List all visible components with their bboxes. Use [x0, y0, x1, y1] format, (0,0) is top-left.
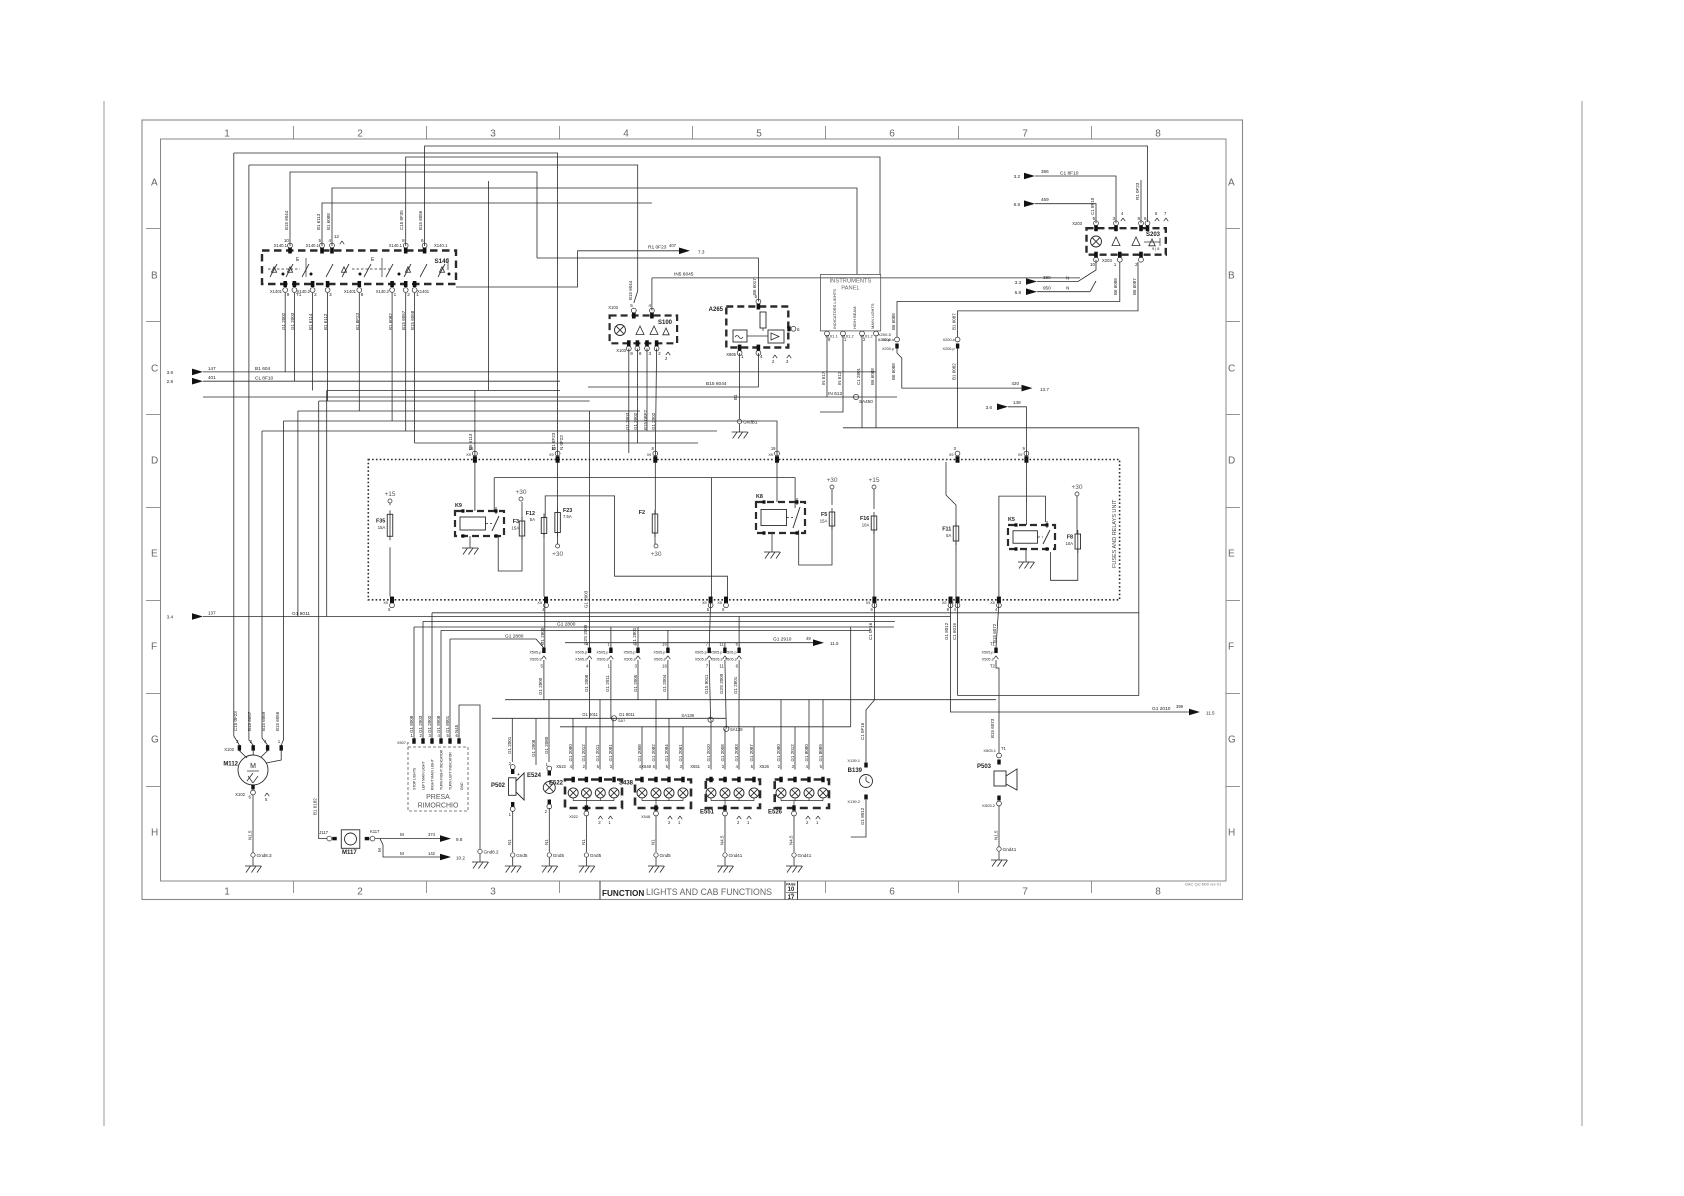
- svg-text:G: G: [151, 735, 159, 746]
- svg-text:19: 19: [771, 446, 776, 451]
- svg-text:G15 8011: G15 8011: [704, 674, 709, 694]
- svg-text:+30: +30: [650, 551, 661, 558]
- svg-text:1: 1: [1114, 262, 1117, 267]
- svg-text:SA?: SA?: [618, 719, 625, 723]
- svg-text:10.2: 10.2: [456, 856, 465, 861]
- svg-text:B6 6087: B6 6087: [1132, 278, 1137, 295]
- svg-text:C15 8F35: C15 8F35: [399, 210, 404, 230]
- svg-text:N1: N1: [507, 839, 512, 845]
- svg-text:G1 8080: G1 8080: [804, 744, 809, 762]
- svg-text:X522: X522: [569, 815, 578, 819]
- svg-text:S203: S203: [1146, 232, 1161, 238]
- svg-text:Gnd41: Gnd41: [729, 853, 743, 858]
- svg-text:X505.s: X505.s: [982, 657, 994, 661]
- svg-text:X507.p: X507.p: [397, 741, 409, 745]
- svg-text:2: 2: [357, 129, 363, 140]
- svg-text:+15: +15: [384, 491, 395, 498]
- svg-text:IN5 6045: IN5 6045: [674, 272, 694, 278]
- svg-text:Gnd41: Gnd41: [798, 853, 812, 858]
- svg-text:INSTRUMENTS: INSTRUMENTS: [830, 279, 872, 285]
- svg-text:+: +: [517, 772, 520, 778]
- svg-text:148: 148: [1013, 400, 1021, 405]
- svg-text:X548: X548: [641, 815, 650, 819]
- svg-text:8: 8: [402, 238, 405, 243]
- svg-text:N4.5: N4.5: [789, 835, 794, 845]
- svg-text:G1 8008: G1 8008: [409, 715, 414, 733]
- svg-text:X203: X203: [1102, 258, 1112, 263]
- svg-text:G1 2087: G1 2087: [749, 744, 754, 762]
- svg-text:Gnd8.3: Gnd8.3: [257, 853, 273, 858]
- svg-text:C: C: [151, 364, 158, 375]
- svg-text:IN 617: IN 617: [821, 371, 826, 385]
- svg-text:K117: K117: [370, 829, 380, 834]
- svg-text:B1 6088: B1 6088: [326, 213, 331, 230]
- svg-text:K503.2: K503.2: [982, 803, 995, 808]
- svg-text:X505.p: X505.p: [575, 650, 587, 654]
- svg-text:X505.p: X505.p: [596, 650, 608, 654]
- svg-text:D: D: [1228, 456, 1235, 467]
- svg-text:E524: E524: [527, 773, 542, 779]
- svg-text:K5: K5: [1008, 517, 1015, 523]
- svg-text:HIGH BEAM: HIGH BEAM: [852, 307, 857, 329]
- svg-text:4: 4: [760, 354, 763, 359]
- svg-text:G1 2080: G1 2080: [544, 736, 549, 754]
- svg-text:G1 2082: G1 2082: [651, 744, 656, 762]
- svg-text:8: 8: [361, 292, 364, 297]
- svg-text:X5: X5: [990, 601, 995, 605]
- svg-text:3: 3: [490, 887, 496, 898]
- svg-text:G1 8011: G1 8011: [619, 712, 635, 717]
- svg-text:X9: X9: [549, 453, 554, 457]
- svg-text:G1 2002: G1 2002: [633, 412, 638, 430]
- svg-text:5: 5: [630, 303, 633, 308]
- svg-text:X200-s: X200-s: [943, 338, 955, 342]
- svg-text:C1 0F16: C1 0F16: [868, 622, 873, 640]
- svg-text:B15 6072: B15 6072: [992, 623, 997, 643]
- svg-text:4: 4: [623, 129, 629, 140]
- svg-text:CL 8F10: CL 8F10: [255, 376, 274, 382]
- svg-text:X505.s: X505.s: [624, 657, 636, 661]
- svg-text:G: G: [1228, 735, 1236, 746]
- svg-text:B6 6017: B6 6017: [752, 278, 757, 295]
- svg-text:X505.s: X505.s: [575, 657, 587, 661]
- svg-text:IN 612: IN 612: [837, 371, 842, 385]
- svg-text:X505.p: X505.p: [981, 650, 993, 654]
- svg-text:401: 401: [208, 375, 216, 380]
- svg-text:6: 6: [889, 887, 895, 898]
- svg-text:C1 2801: C1 2801: [856, 367, 861, 385]
- svg-text:Gnd5: Gnd5: [553, 853, 565, 858]
- svg-text:X5: X5: [383, 601, 388, 605]
- svg-text:X505.p: X505.p: [623, 650, 635, 654]
- svg-text:X200.p: X200.p: [882, 347, 894, 351]
- svg-text:T1: T1: [1001, 746, 1007, 751]
- svg-text:15A: 15A: [820, 519, 828, 524]
- svg-text:11: 11: [719, 663, 724, 668]
- svg-text:B15 6044: B15 6044: [706, 381, 727, 387]
- svg-text:N1.5: N1.5: [248, 830, 253, 840]
- svg-text:147: 147: [208, 366, 216, 371]
- svg-text:N1: N1: [581, 839, 586, 845]
- svg-text:X140.2: X140.2: [297, 289, 311, 294]
- svg-text:PAGE: PAGE: [786, 883, 796, 887]
- svg-text:2.8: 2.8: [167, 379, 174, 384]
- svg-text:+30: +30: [515, 489, 526, 496]
- svg-text:STOP LIGHTS: STOP LIGHTS: [412, 767, 416, 790]
- svg-text:9: 9: [287, 292, 290, 297]
- svg-text:3: 3: [649, 351, 652, 356]
- svg-text:3.6: 3.6: [167, 370, 174, 375]
- svg-text:+30: +30: [826, 477, 837, 484]
- svg-text:X102: X102: [235, 792, 245, 797]
- svg-text:399: 399: [1176, 704, 1184, 709]
- svg-text:B15 6044: B15 6044: [628, 280, 633, 300]
- svg-text:2: 2: [407, 292, 410, 297]
- svg-text:15A: 15A: [512, 526, 520, 531]
- svg-text:3: 3: [490, 129, 496, 140]
- svg-text:LIGHTS AND CAB FUNCTIONS: LIGHTS AND CAB FUNCTIONS: [646, 887, 772, 898]
- svg-text:6: 6: [421, 238, 424, 243]
- svg-text:GND: GND: [460, 782, 464, 790]
- svg-text:9: 9: [1092, 216, 1095, 221]
- svg-text:N45: N45: [454, 724, 459, 733]
- svg-text:Gnd5: Gnd5: [516, 853, 528, 858]
- svg-text:8: 8: [1155, 129, 1161, 140]
- svg-text:G1 2801: G1 2801: [632, 627, 637, 645]
- svg-text:R1 0F23: R1 0F23: [1135, 182, 1140, 200]
- svg-text:16: 16: [662, 663, 667, 668]
- svg-text:G1 2004: G1 2004: [662, 674, 667, 692]
- svg-text:S100: S100: [658, 320, 673, 326]
- svg-text:8: 8: [1137, 216, 1140, 221]
- svg-text:B6 6088: B6 6088: [891, 363, 896, 380]
- svg-text:R1 0F23: R1 0F23: [648, 245, 667, 251]
- svg-text:B139: B139: [848, 768, 863, 774]
- svg-text:X505.s: X505.s: [695, 657, 707, 661]
- svg-text:137: 137: [208, 611, 216, 616]
- svg-text:X5: X5: [717, 601, 722, 605]
- svg-text:C1 8F10: C1 8F10: [1060, 171, 1079, 177]
- svg-text:J117: J117: [319, 830, 328, 835]
- svg-text:F11: F11: [942, 527, 951, 533]
- svg-text:X1401: X1401: [417, 289, 430, 294]
- svg-text:G1 2080: G1 2080: [776, 744, 781, 762]
- svg-text:B6 6088: B6 6088: [891, 313, 896, 330]
- svg-text:A: A: [1228, 178, 1235, 189]
- svg-text:X865: X865: [726, 352, 736, 357]
- svg-text:X203: X203: [1072, 221, 1082, 226]
- svg-text:3: 3: [329, 292, 332, 297]
- svg-text:6.8: 6.8: [1015, 290, 1022, 295]
- svg-text:E526: E526: [768, 810, 783, 816]
- svg-text:M117: M117: [342, 850, 357, 856]
- svg-text:C: C: [1228, 364, 1235, 375]
- svg-text:386: 386: [1041, 169, 1049, 174]
- svg-text:3.2: 3.2: [1014, 174, 1021, 179]
- svg-text:G1 2011: G1 2011: [595, 744, 600, 761]
- svg-text:B15 6044: B15 6044: [284, 210, 289, 230]
- svg-text:X1401: X1401: [270, 289, 283, 294]
- svg-text:G1 2910: G1 2910: [773, 637, 792, 643]
- svg-text:2: 2: [314, 292, 317, 297]
- svg-text:3.4: 3.4: [167, 615, 174, 620]
- svg-text:G1 2084: G1 2084: [664, 744, 669, 762]
- svg-text:FUNCTION: FUNCTION: [602, 889, 644, 898]
- svg-text:9 | 8: 9 | 8: [1152, 247, 1159, 251]
- svg-text:G2S 2009: G2S 2009: [719, 673, 724, 694]
- svg-text:Gnd41: Gnd41: [1003, 847, 1017, 852]
- svg-text:X5: X5: [866, 601, 871, 605]
- svg-text:X505.s: X505.s: [654, 657, 666, 661]
- svg-text:G1 2008: G1 2008: [531, 739, 536, 757]
- svg-text:B: B: [1228, 271, 1235, 282]
- svg-text:X1401: X1401: [344, 289, 357, 294]
- svg-text:G1 2003: G1 2003: [625, 412, 630, 430]
- svg-text:X526: X526: [759, 764, 769, 769]
- svg-text:X139.1: X139.1: [847, 758, 860, 763]
- svg-text:G1 2010: G1 2010: [1152, 706, 1171, 712]
- svg-text:Gnd8.2: Gnd8.2: [484, 850, 500, 855]
- svg-text:F5: F5: [821, 512, 827, 518]
- svg-text:G1 2012: G1 2012: [790, 744, 795, 762]
- svg-text:17: 17: [788, 895, 795, 901]
- svg-text:N1.5: N1.5: [994, 830, 999, 840]
- svg-text:F35: F35: [376, 518, 385, 524]
- svg-text:11: 11: [719, 641, 724, 646]
- svg-text:B15 6057: B15 6057: [401, 310, 406, 330]
- svg-text:Gnd5: Gnd5: [590, 853, 602, 858]
- svg-text:F16: F16: [860, 516, 869, 522]
- svg-text:MAIN LIGHTS: MAIN LIGHTS: [870, 303, 875, 329]
- svg-text:PANEL: PANEL: [841, 286, 860, 292]
- svg-text:+15: +15: [868, 477, 879, 484]
- svg-text:G1 2800: G1 2800: [540, 627, 545, 645]
- svg-text:G1 2001: G1 2001: [507, 736, 512, 754]
- svg-text:G1 2008: G1 2008: [637, 744, 642, 762]
- svg-text:C1 0F16: C1 0F16: [860, 722, 865, 740]
- svg-text:7.5A: 7.5A: [563, 514, 572, 519]
- svg-text:X548: X548: [641, 764, 651, 769]
- svg-text:3.6: 3.6: [986, 405, 993, 410]
- svg-text:SA450: SA450: [859, 399, 873, 404]
- svg-text:F: F: [151, 642, 157, 653]
- svg-text:G1 2080: G1 2080: [568, 744, 573, 762]
- svg-text:B1 6087: B1 6087: [952, 313, 957, 330]
- svg-text:5: 5: [756, 129, 762, 140]
- svg-text:X140.1: X140.1: [306, 243, 320, 248]
- svg-text:IN 612: IN 612: [828, 391, 842, 397]
- svg-text:6: 6: [1144, 216, 1147, 221]
- svg-text:G1 2012: G1 2012: [581, 744, 586, 762]
- svg-text:11.5: 11.5: [830, 641, 839, 646]
- svg-text:M: M: [250, 763, 256, 770]
- svg-text:F8: F8: [1067, 535, 1073, 541]
- svg-text:1: 1: [741, 354, 744, 359]
- svg-text:8: 8: [1155, 887, 1161, 898]
- svg-text:X103: X103: [616, 348, 626, 353]
- svg-text:X503.1: X503.1: [983, 748, 996, 753]
- svg-text:N1: N1: [651, 839, 656, 845]
- svg-text:G1 2002: G1 2002: [651, 412, 656, 430]
- svg-text:3.3: 3.3: [1015, 280, 1022, 285]
- svg-text:X5: X5: [949, 601, 954, 605]
- svg-text:K8: K8: [756, 494, 763, 500]
- svg-text:8: 8: [639, 351, 642, 356]
- svg-text:P502: P502: [491, 783, 506, 789]
- svg-text:X5: X5: [537, 601, 542, 605]
- svg-text:TURN RIGHT INDICATOR: TURN RIGHT INDICATOR: [439, 749, 443, 790]
- svg-text:X505.s: X505.s: [725, 657, 737, 661]
- svg-text:H: H: [1228, 828, 1235, 839]
- svg-text:B1 604: B1 604: [255, 366, 271, 372]
- svg-text:C1 6016: C1 6016: [952, 622, 957, 640]
- svg-text:B1 6113: B1 6113: [316, 213, 321, 230]
- svg-text:X5: X5: [702, 601, 707, 605]
- svg-text:6.8: 6.8: [1014, 202, 1021, 207]
- svg-text:M: M: [400, 851, 404, 856]
- svg-text:X505.s: X505.s: [530, 657, 542, 661]
- svg-text:9: 9: [630, 351, 633, 356]
- svg-text:H: H: [151, 828, 158, 839]
- svg-text:10A: 10A: [1066, 541, 1074, 546]
- svg-text:X9: X9: [466, 453, 471, 457]
- svg-text:M: M: [377, 848, 382, 852]
- svg-text:G1 2011: G1 2011: [605, 675, 610, 692]
- svg-text:B6 6088: B6 6088: [1113, 278, 1118, 295]
- svg-text:10A: 10A: [862, 523, 870, 528]
- svg-text:INDICATORS LIGHTS: INDICATORS LIGHTS: [832, 289, 837, 329]
- svg-text:2: 2: [357, 887, 363, 898]
- svg-text:6: 6: [797, 327, 800, 332]
- svg-text:X505.s: X505.s: [597, 657, 609, 661]
- svg-text:B15 6056: B15 6056: [275, 711, 280, 731]
- svg-text:G1 2003: G1 2003: [418, 715, 423, 733]
- svg-text:7: 7: [1022, 129, 1028, 140]
- svg-text:10: 10: [551, 446, 556, 451]
- svg-text:6: 6: [889, 129, 895, 140]
- svg-text:D: D: [151, 456, 158, 467]
- svg-text:B: B: [151, 271, 158, 282]
- svg-text:FUSES AND RELAYS UNIT: FUSES AND RELAYS UNIT: [1112, 499, 1118, 568]
- svg-text:X140.2: X140.2: [376, 289, 390, 294]
- svg-text:950: 950: [1043, 286, 1051, 291]
- svg-text:N4.5: N4.5: [720, 835, 725, 845]
- svg-text:B15 6073: B15 6073: [990, 718, 995, 738]
- svg-text:A265: A265: [709, 307, 724, 313]
- svg-text:G1 2061: G1 2061: [678, 744, 683, 762]
- svg-text:X140.1: X140.1: [274, 243, 288, 248]
- svg-text:7: 7: [1022, 887, 1028, 898]
- svg-text:13.7: 13.7: [1040, 387, 1049, 392]
- svg-text:G1 2880: G1 2880: [505, 634, 524, 640]
- svg-text:RIMORCHIO: RIMORCHIO: [418, 803, 459, 810]
- svg-text:K9: K9: [455, 503, 462, 509]
- svg-text:X9: X9: [949, 453, 954, 457]
- svg-text:G1 2003: G1 2003: [584, 590, 589, 608]
- svg-text:G1 2008: G1 2008: [720, 744, 725, 762]
- svg-text:3: 3: [1112, 216, 1115, 221]
- svg-text:X9: X9: [647, 453, 652, 457]
- svg-text:X200-s: X200-s: [882, 338, 894, 342]
- svg-text:G1 8001: G1 8001: [445, 715, 450, 733]
- svg-text:16: 16: [662, 641, 667, 646]
- svg-text:TURN LEFT INDICATOR: TURN LEFT INDICATOR: [448, 752, 452, 790]
- svg-text:X505.p: X505.p: [529, 650, 541, 654]
- svg-text:X200.p: X200.p: [943, 347, 955, 351]
- svg-text:X505.p: X505.p: [653, 650, 665, 654]
- svg-text:142: 142: [428, 851, 436, 856]
- svg-text:M112: M112: [223, 762, 238, 768]
- svg-text:G1 8012: G1 8012: [860, 807, 865, 825]
- svg-text:B6 6088: B6 6088: [870, 368, 875, 385]
- svg-text:+30: +30: [1071, 484, 1082, 491]
- svg-text:374: 374: [428, 832, 436, 837]
- svg-text:15A: 15A: [378, 525, 386, 530]
- svg-text:2: 2: [1135, 262, 1138, 267]
- svg-text:LEFT MAIN LIGHT: LEFT MAIN LIGHT: [421, 761, 425, 790]
- svg-text:G1 2800: G1 2800: [557, 622, 576, 628]
- svg-text:F3: F3: [513, 519, 519, 525]
- svg-text:X5: X5: [942, 601, 947, 605]
- svg-text:X102: X102: [224, 747, 234, 752]
- svg-text:G1 8008: G1 8008: [436, 715, 441, 733]
- svg-text:1: 1: [394, 292, 397, 297]
- svg-text:B15 6056: B15 6056: [418, 210, 423, 230]
- svg-text:X505.p: X505.p: [710, 650, 722, 654]
- svg-text:N: N: [1066, 286, 1069, 291]
- svg-text:B15 0BF2: B15 0BF2: [643, 409, 648, 430]
- svg-text:N 0F23: N 0F23: [559, 435, 564, 450]
- svg-text:RIGHT MAIN LIGHT: RIGHT MAIN LIGHT: [430, 759, 434, 790]
- svg-text:SA139: SA139: [681, 713, 694, 718]
- svg-text:B1 6082: B1 6082: [952, 363, 957, 380]
- svg-text:G1 2002: G1 2002: [427, 715, 432, 733]
- svg-text:B15 6057: B15 6057: [247, 711, 252, 731]
- svg-text:E: E: [151, 549, 158, 560]
- svg-text:4: 4: [648, 303, 651, 308]
- svg-text:N1: N1: [544, 839, 549, 845]
- svg-text:X139.2: X139.2: [847, 799, 860, 804]
- svg-text:B15 6069: B15 6069: [261, 711, 266, 731]
- svg-text:1: 1: [224, 887, 230, 898]
- svg-text:E551: E551: [700, 810, 715, 816]
- svg-text:C15 0F23: C15 0F23: [233, 711, 238, 731]
- svg-text:X505.p: X505.p: [725, 650, 737, 654]
- svg-text:G1 8011: G1 8011: [582, 712, 598, 717]
- svg-text:X522: X522: [556, 764, 566, 769]
- svg-text:G1 2800: G1 2800: [538, 677, 543, 695]
- svg-text:P503: P503: [977, 764, 992, 770]
- svg-text:X140.1: X140.1: [389, 243, 403, 248]
- svg-text:A: A: [151, 178, 158, 189]
- svg-text:G1 2005: G1 2005: [633, 674, 638, 692]
- svg-text:X140.1: X140.1: [434, 243, 448, 248]
- svg-text:X505.s: X505.s: [711, 657, 723, 661]
- svg-text:G1 2010: G1 2010: [706, 744, 711, 762]
- svg-text:10: 10: [1090, 262, 1096, 267]
- svg-text:X9: X9: [1018, 453, 1023, 457]
- svg-text:G1 8089: G1 8089: [818, 744, 823, 762]
- svg-text:380: 380: [1043, 275, 1051, 280]
- svg-text:X103: X103: [608, 305, 618, 310]
- svg-text:T2: T2: [990, 663, 996, 668]
- svg-text:12: 12: [334, 234, 340, 239]
- svg-text:2: 2: [658, 351, 661, 356]
- svg-text:N: N: [1066, 276, 1069, 281]
- svg-text:7.3: 7.3: [698, 250, 705, 255]
- svg-text:E: E: [1228, 549, 1235, 560]
- svg-text:49: 49: [806, 636, 811, 641]
